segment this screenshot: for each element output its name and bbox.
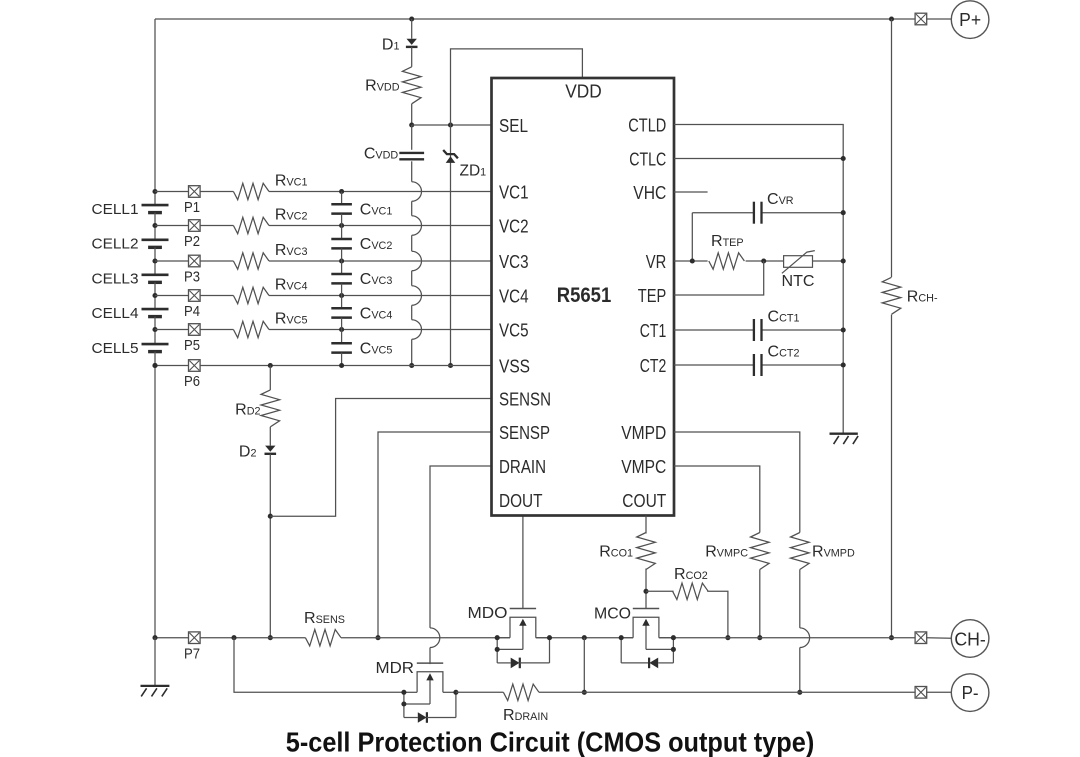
wire VSS to RD2 <box>269 366 271 391</box>
wire RCO1 to gate node <box>645 569 647 609</box>
svg-text:VC2: VC2 <box>499 217 529 237</box>
diode D1 <box>407 39 417 45</box>
terminal P- <box>951 674 989 712</box>
wire RCH- to rail <box>891 315 893 638</box>
wire battery bottom to P7 rail <box>154 366 156 638</box>
node VR junction <box>690 258 695 263</box>
wire left column from P+ rail to CELL1 <box>154 19 156 192</box>
capacitor CVDD <box>399 152 424 154</box>
node D2/SENSN junction <box>268 514 273 519</box>
wire RTEP to NTC <box>746 260 784 262</box>
pad CH- terminal <box>915 632 927 644</box>
wire P- rail drop <box>234 638 404 693</box>
pad P2 <box>189 220 201 232</box>
svg-text:VR: VR <box>646 252 667 272</box>
svg-text:VC5: VC5 <box>499 321 529 341</box>
wire RCO2 to rail <box>707 591 728 637</box>
resistor RCH- <box>882 277 901 314</box>
wire P+ bus to RCH- <box>891 19 893 277</box>
node CVC junction row 1 <box>339 189 344 194</box>
wire CVDD to VSS rail <box>411 161 413 181</box>
svg-text:CTLC: CTLC <box>629 150 666 170</box>
svg-text:P1: P1 <box>184 200 200 216</box>
wire SENSN path <box>270 399 491 517</box>
node RD2 top junction <box>268 363 273 368</box>
capacitor CVC1 <box>341 192 343 205</box>
svg-text:VC4: VC4 <box>499 287 529 307</box>
node CVR bus junction <box>841 210 846 215</box>
wire CVDD top <box>411 125 413 150</box>
wire CTLC row <box>674 158 843 160</box>
wire cell tap row 3 <box>155 260 233 262</box>
svg-text:VSS: VSS <box>499 357 530 377</box>
node D2 rail junction <box>268 635 273 640</box>
pad P+ terminal <box>915 13 927 25</box>
wire top P+ rail <box>155 18 915 20</box>
wire VMPC path <box>674 466 760 533</box>
wire hops CVDD over VC rows <box>412 182 422 202</box>
svg-text:VMPD: VMPD <box>621 423 666 443</box>
wire RVC1 to IC <box>269 191 492 193</box>
wire NTC to bus <box>813 260 844 262</box>
svg-text:VC3: VC3 <box>499 252 529 272</box>
pad P7 <box>189 632 201 644</box>
node CT2 bus junction <box>841 362 846 367</box>
node P- branch junction <box>231 635 236 640</box>
svg-text:VDD: VDD <box>565 82 602 102</box>
svg-text:VHC: VHC <box>633 183 666 203</box>
battery CELL2 <box>154 226 156 240</box>
wire RVMPD to hop <box>799 570 801 628</box>
capacitor CVR <box>753 202 755 224</box>
node battery row 4 <box>152 293 157 298</box>
terminal CH- <box>951 620 989 658</box>
svg-text:MCO: MCO <box>594 606 631 623</box>
svg-text:CELL4: CELL4 <box>92 305 139 322</box>
svg-text:MDO: MDO <box>468 605 508 622</box>
wire SENSP path <box>378 432 492 638</box>
wire CVR row <box>692 212 754 214</box>
wire VDD jog <box>451 49 583 125</box>
wire CT1 row <box>674 329 754 331</box>
pad P- terminal <box>915 687 927 699</box>
svg-text:SENSN: SENSN <box>499 390 551 410</box>
node RVMPC rail junction <box>757 635 762 640</box>
node CVC junction row 3 <box>339 258 344 263</box>
node battery row 6 <box>152 363 157 368</box>
node MCO gate junction <box>643 589 648 594</box>
battery CELL5 <box>154 330 156 344</box>
wire VR row <box>674 260 708 262</box>
svg-text:DOUT: DOUT <box>499 491 543 511</box>
wire CH- pad to circle <box>927 637 952 640</box>
transistor MCO <box>621 637 633 639</box>
resistor RVMPD <box>791 533 810 570</box>
zener ZD1 <box>446 156 456 163</box>
ground right bus <box>830 433 858 435</box>
svg-text:P+: P+ <box>959 10 981 30</box>
transistor MDO <box>497 637 510 639</box>
node rail-to-lower junction <box>582 635 587 640</box>
svg-text:P2: P2 <box>184 234 200 250</box>
pad P6 <box>189 360 201 372</box>
resistor RVC1 <box>233 183 269 199</box>
wire CTLD row <box>674 125 843 434</box>
wire D2 to rail <box>269 454 271 638</box>
wire CH- rail segment D <box>659 637 915 639</box>
diode D2 <box>265 446 275 452</box>
svg-text:MDR: MDR <box>376 660 415 677</box>
capacitor CVC5 <box>341 330 343 344</box>
battery CELL1 <box>154 192 156 205</box>
wire COUT to RCO1 <box>645 516 647 534</box>
svg-text:R5651: R5651 <box>557 284 612 307</box>
wire RVC3 to IC <box>269 260 492 262</box>
resistor RVC3 <box>233 253 269 269</box>
svg-text:P-: P- <box>962 683 979 703</box>
resistor RSENS <box>305 630 341 646</box>
node SENSP rail junction <box>375 635 380 640</box>
node RVMPD P- rail junction <box>797 690 802 695</box>
resistor RVC4 <box>233 287 269 303</box>
resistor RVDD <box>402 67 421 104</box>
wire CH- rail segment B <box>341 637 510 639</box>
resistor RVC5 <box>233 321 269 337</box>
wire cell tap row 1 <box>155 191 233 193</box>
svg-text:CELL1: CELL1 <box>92 201 139 218</box>
terminal P+ <box>951 1 989 39</box>
node CT1 bus junction <box>841 327 846 332</box>
resistor RTEP <box>709 253 745 269</box>
wire SEL row <box>412 124 492 126</box>
node CVC junction row 5 <box>339 327 344 332</box>
svg-text:CELL3: CELL3 <box>92 271 139 288</box>
battery CELL4 <box>154 296 156 309</box>
wire RVC4 to IC <box>269 295 492 297</box>
wire cell tap row 2 <box>155 225 233 227</box>
wire hop RVMPD over rail <box>800 628 810 648</box>
node D1 top junction <box>409 16 414 21</box>
svg-text:VC1: VC1 <box>499 183 529 203</box>
capacitor CVC2 <box>341 226 343 239</box>
svg-text:SENSP: SENSP <box>499 423 550 443</box>
wire CH- rail segment C <box>536 637 633 639</box>
wire VR riser <box>691 213 693 261</box>
wire P+ pad to circle <box>927 18 952 20</box>
wire RVDD to SEL node <box>411 104 413 125</box>
node rail battery junction <box>152 635 157 640</box>
capacitor CCT2 <box>753 354 755 376</box>
svg-text:CT2: CT2 <box>640 356 667 376</box>
capacitor CCT1 <box>753 319 755 341</box>
svg-text:CTLD: CTLD <box>628 116 666 136</box>
wire CH- rail segment A <box>155 637 305 639</box>
svg-text:P6: P6 <box>184 374 200 390</box>
svg-text:CELL2: CELL2 <box>92 236 139 253</box>
node battery row 1 <box>152 189 157 194</box>
svg-text:5-cell Protection Circuit (CMO: 5-cell Protection Circuit (CMOS output t… <box>286 726 815 757</box>
node VR bus junction <box>841 258 846 263</box>
node RCH- rail junction <box>889 635 894 640</box>
node RTEP/TEP junction <box>761 258 766 263</box>
IC U1 R5651 body <box>492 78 675 516</box>
wire VMPD path <box>674 432 800 533</box>
svg-text:VMPC: VMPC <box>621 457 666 477</box>
svg-text:P4: P4 <box>184 304 200 320</box>
node VSS battery junction <box>152 363 157 368</box>
wire VSS rail <box>155 365 189 367</box>
wire TEP row <box>674 261 764 295</box>
node battery row 3 <box>152 258 157 263</box>
wire ZD1 branch <box>450 125 452 366</box>
wire hop DRAIN over rail <box>430 628 440 648</box>
node lower rail junction <box>582 690 587 695</box>
resistor RVC2 <box>233 217 269 233</box>
battery CELL3 <box>154 261 156 275</box>
wire rail drop to P- rail <box>583 638 585 693</box>
wire gate node to RCO2 <box>646 590 674 592</box>
wire RVC5 to IC <box>269 329 492 331</box>
svg-text:SEL: SEL <box>499 116 528 136</box>
resistor RD2 <box>261 390 280 427</box>
wire DOUT to MDO gate <box>522 516 524 609</box>
resistor RCO2 <box>673 583 709 599</box>
capacitor CVC4 <box>341 296 343 309</box>
wire D1 to RVDD <box>411 47 413 67</box>
node battery row 2 <box>152 223 157 228</box>
node P+ bus junction <box>889 16 894 21</box>
node CVC junction row 4 <box>339 293 344 298</box>
pad P3 <box>189 255 201 267</box>
wire RD2 to D2 <box>269 427 271 446</box>
node SEL/VDD/ZD1 junction <box>448 122 453 127</box>
pad P4 <box>189 290 201 302</box>
node RCO2 rail junction <box>725 635 730 640</box>
svg-text:TEP: TEP <box>638 286 667 306</box>
pad P1 <box>189 186 201 198</box>
transistor MDR <box>404 691 417 693</box>
wire DRAIN to MDR gate <box>429 648 431 665</box>
wire RVMPD to P- rail <box>799 648 801 693</box>
wire cell tap row 4 <box>155 295 233 297</box>
svg-text:NTC: NTC <box>782 273 815 290</box>
svg-text:COUT: COUT <box>622 491 666 511</box>
wire RVC2 to IC <box>269 225 492 227</box>
node CVDD/VSS junction <box>409 363 414 368</box>
svg-text:CT1: CT1 <box>640 321 667 341</box>
svg-text:CH-: CH- <box>954 629 986 649</box>
wire P- rail segment A <box>456 691 504 693</box>
wire D1 branch <box>411 19 413 39</box>
pad P5 <box>189 324 201 336</box>
node RVDD/SEL junction <box>409 122 414 127</box>
node CTLC bus junction <box>841 156 846 161</box>
svg-text:CELL5: CELL5 <box>92 340 139 357</box>
resistor RDRAIN <box>503 684 539 700</box>
capacitor CVC3 <box>341 261 343 274</box>
resistor RCO1 <box>637 533 656 570</box>
wire cell tap row 5 <box>155 329 233 331</box>
svg-text:P5: P5 <box>184 338 200 354</box>
ground left <box>154 638 156 685</box>
thermistor NTC <box>784 256 813 268</box>
svg-text:P7: P7 <box>184 646 200 662</box>
wire P- pad to circle <box>927 691 952 693</box>
wire P- rail segment B <box>539 691 915 693</box>
wire VHC stub <box>674 191 708 193</box>
wire RVMPC to rail <box>759 570 761 638</box>
svg-text:P3: P3 <box>184 270 200 286</box>
svg-text:DRAIN: DRAIN <box>499 457 546 477</box>
node ZD1/VSS junction <box>448 363 453 368</box>
wire CT2 row <box>674 364 754 366</box>
node VSS cap junction <box>339 363 344 368</box>
wire DRAIN path <box>430 466 492 628</box>
node battery row 5 <box>152 327 157 332</box>
node CVC junction row 2 <box>339 223 344 228</box>
resistor RVMPC <box>751 533 770 570</box>
